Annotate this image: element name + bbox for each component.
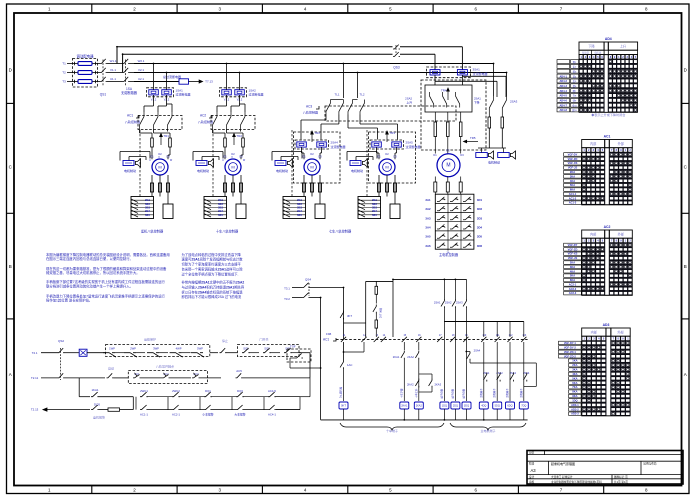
svg-text:T1: T1 [62, 62, 66, 66]
wires below fuses [434, 75, 436, 81]
svg-text:D3: D3 [166, 155, 170, 159]
svg-text:AD4-1: AD4-1 [559, 74, 567, 78]
dashed-row contact 110 [481, 337, 486, 342]
branch5 fuse pair 3SA1 [430, 70, 440, 75]
svg-text:3D4: 3D4 [477, 226, 483, 230]
svg-text:2KA: 2KA [570, 261, 575, 265]
svg-text:AC4-1: AC4-1 [268, 413, 276, 417]
svg-text:AC4-5: AC4-5 [268, 389, 276, 393]
svg-text:D2: D2 [446, 149, 450, 153]
wires to motor [301, 147, 303, 153]
svg-text:AD4-4: AD4-4 [559, 89, 567, 93]
svg-text:比例与布局: 比例与布局 [644, 462, 657, 466]
wire right end down [299, 352, 310, 354]
svg-text:3DQ: 3DQ [464, 405, 469, 408]
coil 6DQ [509, 342, 511, 401]
svg-text:主机端子: 主机端子 [492, 388, 496, 398]
terminal row 1 [435, 202, 474, 204]
svg-text:主机端子: 主机端子 [479, 388, 483, 398]
svg-text:9KA: 9KA [572, 394, 577, 398]
svg-text:3B2: 3B2 [372, 202, 377, 206]
svg-text:3A5: 3A5 [425, 235, 431, 239]
svg-text:分区: 分区 [529, 451, 535, 455]
motor M at x=233 [225, 159, 241, 175]
svg-text:主电机端子: 主电机端子 [480, 428, 495, 433]
wire [67, 72, 78, 74]
svg-text:下降: 下降 [588, 44, 595, 49]
svg-text:上升: 上升 [620, 44, 627, 49]
svg-text:D1: D1 [377, 155, 381, 159]
svg-text:D1: D1 [223, 155, 227, 159]
upper sub-network [366, 280, 393, 282]
svg-text:3D3: 3D3 [477, 216, 483, 220]
svg-text:过个全位拘手柄点很为下降位置线成下.: 过个全位拘手柄点很为下降位置线成下. [182, 271, 239, 276]
lower contact network [132, 397, 134, 410]
svg-text:起重机电气原理图: 起重机电气原理图 [551, 461, 575, 466]
table AD3 column header row [582, 336, 631, 416]
svg-text:1DQ: 1DQ [572, 399, 577, 403]
svg-text:D3: D3 [318, 155, 322, 159]
svg-text:AC1-3: AC1-3 [569, 201, 577, 205]
L-wire tick12 to col1 [363, 342, 365, 352]
row W feed [134, 63, 494, 65]
motor M at x=160 [152, 159, 168, 175]
svg-text:2WC2: 2WC2 [172, 389, 180, 393]
svg-text:盘机报警: 盘机报警 [93, 415, 105, 420]
title block [527, 451, 683, 485]
brake coils [488, 128, 490, 148]
svg-text:操作加1其位置 进长安保护站。: 操作加1其位置 进长安保护站。 [46, 298, 92, 303]
svg-text:TR4: TR4 [441, 89, 447, 93]
svg-text:U: U [222, 159, 224, 162]
svg-text:D2: D2 [158, 152, 162, 156]
group brace 1 [340, 423, 444, 430]
svg-text:门开关: 门开关 [259, 337, 268, 342]
svg-text:4DQ: 4DQ [481, 405, 486, 408]
motor leads [224, 175, 226, 197]
dashed-row contact 19 [463, 337, 468, 342]
svg-text:QS4: QS4 [305, 277, 311, 281]
svg-text:D2: D2 [231, 152, 235, 156]
svg-text:AC1-1: AC1-1 [569, 192, 577, 196]
rotor resistor box [315, 204, 325, 219]
svg-text:D3: D3 [393, 155, 397, 159]
motor leads [378, 175, 380, 197]
svg-text:AC3: AC3 [306, 105, 312, 109]
wires to contactor [226, 95, 228, 106]
wire network to branch fuses [325, 115, 327, 121]
svg-text:3D2: 3D2 [477, 207, 483, 211]
aux box KH [65, 352, 80, 354]
wires to motor [151, 147, 153, 159]
svg-text:4KA: 4KA [570, 269, 575, 273]
network contact 小车报警 [204, 405, 212, 410]
svg-text:AD4-3: AD4-3 [559, 84, 567, 88]
svg-text:2SA3: 2SA3 [456, 301, 463, 305]
dashed-row contact 11 [341, 337, 346, 342]
svg-text:D2: D2 [385, 152, 389, 156]
svg-text:D1: D1 [433, 153, 437, 157]
dashed-row contact 17 [437, 337, 442, 342]
svg-text:TR2: TR2 [315, 131, 321, 135]
svg-text:112: 112 [509, 334, 513, 337]
svg-text:QS2: QS2 [58, 339, 64, 343]
svg-text:2KA3: 2KA3 [435, 383, 442, 387]
wires to motor [376, 147, 378, 153]
svg-text:4WP: 4WP [176, 346, 182, 350]
svg-text:3D6: 3D6 [477, 244, 483, 248]
bus tap junction dots [153, 63, 155, 65]
branch 3 fuse pair 2SA4 [297, 142, 307, 147]
svg-text:AD3: AD3 [603, 323, 610, 327]
svg-text:审核: 审核 [529, 480, 535, 484]
svg-text:0斗提升器: 0斗提升器 [339, 386, 343, 398]
svg-text:2KT 时间: 2KT 时间 [379, 307, 383, 318]
svg-text:3B5: 3B5 [218, 213, 223, 217]
svg-text:VGF-XS: VGF-XS [568, 161, 578, 165]
svg-text:台米那一个客家调码输水2SA1这样可以除: 台米那一个客家调码输水2SA1这样可以除 [182, 267, 244, 272]
svg-text:自动: 自动 [108, 366, 114, 371]
network contact AC1-1 [140, 405, 148, 410]
breaker 1SA [123, 59, 130, 64]
brake wiring [346, 152, 348, 161]
table AC2 column header row [582, 238, 633, 295]
svg-text:AC1-1: AC1-1 [140, 413, 148, 417]
svg-text:手柄改退力下降位置各处加7留常运行进度飞机灵紫推手柄提示之连: 手柄改退力下降位置各处加7留常运行进度飞机灵紫推手柄提示之连需保护的运行 [46, 293, 166, 298]
dashed-row contact 16 [416, 337, 421, 342]
svg-text:2KA: 2KA [570, 170, 575, 174]
svg-text:7KA: 7KA [572, 385, 577, 389]
dashed-row contact 112 [507, 337, 512, 342]
group brace 2 [450, 423, 526, 430]
contactor outputs [212, 129, 214, 133]
svg-text:TL1: TL1 [335, 92, 340, 96]
brake coil YB [350, 161, 361, 166]
svg-text:3WP: 3WP [153, 346, 159, 350]
svg-text:本图为编框梯度下降控制电器联动的总安装图纸设计说明，需要各处: 本图为编框梯度下降控制电器联动的总安装图纸设计说明，需要各处。西和连重备用 [46, 252, 170, 257]
svg-text:3B1: 3B1 [372, 198, 377, 202]
svg-text:AD4: AD4 [605, 37, 612, 41]
fuse FU1 [78, 62, 92, 66]
table AD4 column header row [579, 55, 638, 113]
network contact AC2-1 [172, 405, 180, 410]
svg-text:AC1: AC1 [127, 114, 133, 118]
terminal block [283, 197, 306, 219]
svg-text:M: M [385, 164, 388, 169]
svg-text:AC2-3: AC2-3 [569, 291, 577, 295]
svg-text:VGF-ZD-2: VGF-ZD-2 [564, 354, 577, 358]
svg-text:VGF-XS: VGF-XS [568, 252, 578, 256]
coil 2DQ [451, 402, 460, 409]
brake resistors [488, 117, 491, 128]
junction dots [343, 287, 345, 289]
svg-text:8KA: 8KA [572, 390, 577, 394]
svg-text:共1页 第1页: 共1页 第1页 [614, 480, 628, 484]
brake wiring [271, 152, 273, 161]
svg-text:上升: 上升 [406, 101, 412, 105]
disconnect switch QS1 [100, 59, 107, 64]
drop to lower network [78, 378, 80, 397]
brake coil YB [123, 161, 134, 166]
svg-text:3B2: 3B2 [145, 202, 150, 206]
svg-text:AC5: AC5 [236, 369, 242, 373]
cross wire col1-col2 [344, 322, 366, 324]
motor leads [151, 175, 153, 197]
svg-text:QS3: QS3 [393, 66, 400, 70]
overload arrow TR4 [447, 88, 450, 100]
feed bus to 2SA columns [393, 278, 467, 280]
svg-text:3B4: 3B4 [218, 209, 223, 213]
motor M at x=387 [379, 159, 395, 175]
bus L2 [123, 53, 393, 55]
feed to column 1 [310, 287, 344, 289]
svg-text:电机制动: 电机制动 [197, 168, 209, 173]
svg-text:电机制动: 电机制动 [488, 160, 500, 165]
svg-text:T3.2: T3.2 [284, 297, 290, 301]
svg-text:A: A [9, 372, 12, 377]
svg-text:5KA: 5KA [570, 183, 575, 187]
wire [130, 63, 135, 65]
svg-text:AC1: AC1 [604, 134, 611, 138]
svg-text:VGF-JS: VGF-JS [568, 256, 578, 260]
svg-text:3B5: 3B5 [372, 213, 377, 217]
feeders to AC3 [342, 64, 344, 99]
TGF dashed box [287, 349, 311, 362]
svg-text:外部: 外部 [617, 330, 624, 335]
svg-text:电机制动: 电机制动 [351, 168, 363, 173]
terminal block [204, 197, 227, 219]
svg-text:内部: 内部 [591, 330, 598, 335]
svg-text:停止: 停止 [222, 338, 228, 343]
svg-text:3A4: 3A4 [425, 226, 431, 230]
svg-text:手柄板倒下部位置7这考级的实现宽于机上处有重构成工件过程连板: 手柄板倒下部位置7这考级的实现宽于机上处有重构成工件过程连板需接连的运行 [46, 279, 166, 284]
stator resistors [434, 112, 436, 122]
svg-text:QS1: QS1 [100, 93, 107, 97]
svg-text:AC1-2: AC1-2 [569, 196, 577, 200]
svg-text:D3: D3 [460, 153, 464, 157]
terminal row 3 [435, 221, 474, 223]
table AD3 grid cells [582, 342, 586, 345]
fuse group dashed box [73, 59, 98, 88]
svg-text:大车报警: 大车报警 [234, 413, 245, 417]
svg-text:AD4-2: AD4-2 [559, 79, 567, 83]
svg-text:AC2-2: AC2-2 [569, 287, 577, 291]
svg-text:6KA: 6KA [572, 381, 577, 385]
wire to branch5 fuses [400, 46, 462, 48]
svg-text:下降: 下降 [474, 101, 480, 105]
svg-text:6KA: 6KA [570, 278, 575, 282]
thermal resistors branch 1 [151, 138, 154, 147]
svg-text:D1: D1 [150, 155, 154, 159]
svg-text:3A1: 3A1 [425, 198, 431, 202]
svg-text:3B5: 3B5 [297, 213, 302, 217]
table AC2 grid cells [582, 244, 585, 246]
wire [130, 81, 135, 83]
svg-text:大连重工 起重设计: 大连重工 起重设计 [551, 475, 573, 479]
wire [107, 81, 123, 83]
bottom rail [321, 419, 528, 421]
wire [67, 63, 78, 65]
contact 2SA3 [466, 279, 468, 299]
svg-text:主机端子: 主机端子 [505, 388, 509, 398]
svg-text:4KA: 4KA [570, 179, 575, 183]
overload arrow [386, 131, 389, 142]
rotor resistor box [163, 204, 173, 219]
dashed-row contact 12 [361, 337, 366, 342]
network contact AC4-1 [268, 405, 276, 410]
svg-text:3KA: 3KA [572, 368, 577, 372]
svg-text:总过流断电器: 总过流断电器 [163, 74, 181, 79]
svg-text:AD4-7: AD4-7 [559, 103, 567, 107]
svg-text:十车端子: 十车端子 [386, 428, 398, 433]
coil 3DQ [462, 402, 471, 409]
svg-text:端子控制: 端子控制 [450, 388, 454, 398]
terminal block [358, 197, 381, 219]
table AC2 header [582, 230, 605, 238]
svg-text:T7.13: T7.13 [205, 80, 213, 84]
wire [107, 72, 123, 74]
svg-text:AD4-8: AD4-8 [559, 108, 567, 112]
dashed-row contact 14 [381, 337, 386, 342]
dashed tie line [139, 130, 141, 197]
svg-text:电机制动: 电机制动 [276, 168, 288, 173]
svg-text:十车八轨控制器: 十车八轨控制器 [216, 228, 239, 233]
svg-text:M: M [446, 163, 450, 169]
coil 0KT [339, 402, 348, 409]
svg-text:AC1: AC1 [323, 338, 329, 342]
svg-text:主机端子: 主机端子 [519, 388, 523, 398]
svg-text:D1: D1 [302, 155, 306, 159]
svg-text:3A2: 3A2 [425, 207, 431, 211]
feeders from buses [226, 64, 228, 90]
switch QS3 [393, 45, 400, 49]
main motor M5 [437, 154, 460, 177]
svg-text:3B1: 3B1 [218, 198, 223, 202]
svg-text:VGF-DY: VGF-DY [568, 243, 578, 247]
table AC1 grid cells [582, 153, 585, 155]
2SA3 contacts right [493, 64, 495, 97]
svg-text:AC2-1: AC2-1 [172, 413, 180, 417]
svg-text:内部: 内部 [590, 232, 597, 237]
svg-text:运输保护: 运输保护 [144, 337, 156, 342]
svg-text:TR3: TR3 [390, 131, 396, 135]
svg-text:5KA: 5KA [570, 274, 575, 278]
overload arrow TR [233, 134, 236, 146]
svg-text:2DQ: 2DQ [453, 405, 458, 408]
svg-text:T2.1: T2.1 [32, 351, 38, 355]
network contact 大车报警 [236, 405, 244, 410]
svg-text:U2.1: U2.1 [138, 77, 144, 81]
svg-text:械双推之基，尽量电过大切机械停止，所以回访系统手提升大。: 械双推之基，尽量电过大切机械停止，所以回访系统手提升大。 [46, 270, 140, 275]
svg-text:B: B [9, 264, 12, 269]
rotor resistor box [390, 204, 400, 219]
svg-text:3KA: 3KA [570, 265, 575, 269]
svg-text:5KA: 5KA [572, 376, 577, 380]
svg-text:3B1: 3B1 [297, 198, 302, 202]
wires to motor [224, 147, 226, 159]
svg-text:AD4-6: AD4-6 [559, 99, 567, 103]
bus L1 [117, 46, 393, 48]
contact 2SA2 [454, 279, 456, 299]
svg-text:切除为了个家海度率约速度方以合支援平: 切除为了个家海度率约速度方以合支援平 [182, 262, 242, 267]
svg-text:3D1: 3D1 [477, 198, 483, 202]
svg-text:现在的这一切都为果条路基准，是为了很额的缓英和算架和处架连动: 现在的这一切都为果条路基准，是为了很额的缓英和算架和处架连动过程中的设备 [46, 266, 167, 271]
dashed tie line [212, 130, 214, 197]
svg-text:内部: 内部 [590, 141, 597, 146]
svg-text:113: 113 [522, 334, 526, 337]
wires to contactor [153, 95, 155, 106]
row2 wires [65, 377, 106, 379]
svg-text:八轨常开触点: 八轨常开触点 [156, 364, 174, 369]
svg-text:TGF: TGF [290, 345, 296, 349]
svg-text:3B2: 3B2 [297, 202, 302, 206]
contact 2KA2 [415, 351, 418, 360]
branch 4 fuse pair 2SA5 [372, 142, 382, 147]
svg-text:七车八轨控制器: 七车八轨控制器 [329, 228, 352, 233]
svg-text:VGF-DY-1: VGF-DY-1 [564, 341, 577, 345]
svg-text:外部: 外部 [618, 232, 625, 237]
svg-text:2SA2: 2SA2 [445, 301, 452, 305]
motor leads [303, 175, 305, 197]
svg-text:T3: T3 [62, 80, 66, 84]
motor M at x=312 [304, 159, 320, 175]
svg-text:3KT: 3KT [347, 314, 352, 318]
dashed-row contact 111 [495, 337, 500, 342]
terminal row 5 [435, 239, 474, 241]
svg-text:2KA2: 2KA2 [416, 405, 423, 408]
svg-text:遥机八轨控制器: 遥机八轨控制器 [141, 228, 164, 233]
svg-text:AC2: AC2 [604, 225, 611, 229]
rotor resistor box [236, 204, 246, 219]
branch 2 fuse pair 1SA2 [222, 90, 232, 95]
svg-text:5WP: 5WP [197, 346, 203, 350]
fuse FU3 [78, 80, 92, 84]
svg-text:U1.1: U1.1 [110, 77, 116, 81]
svg-text:5DQ: 5DQ [495, 405, 500, 408]
svg-text:图样标记 页: 图样标记 页 [614, 475, 628, 479]
svg-text:◆表示上升或下降时闭合: ◆表示上升或下降时闭合 [591, 112, 625, 117]
svg-text:AD4-5: AD4-5 [559, 94, 567, 98]
big dashed box branch5 [421, 80, 486, 150]
terminal block [131, 197, 154, 219]
contact 3KT on col1 [340, 311, 343, 320]
svg-text:VGF-ZD: VGF-ZD [568, 157, 578, 161]
overload arrow TR [160, 134, 163, 146]
dashed-row contact 15 [402, 337, 407, 342]
contact 2KT [373, 305, 376, 314]
thermal resistors branch 2 [224, 138, 227, 147]
svg-text:1SB: 1SB [326, 332, 331, 336]
svg-text:2KA2: 2KA2 [407, 383, 414, 387]
svg-text:6DQ: 6DQ [507, 405, 512, 408]
svg-text:W2.1: W2.1 [138, 59, 145, 63]
svg-text:AD3-3: AD3-3 [571, 412, 579, 416]
svg-text:联分档测引减条位置两动装化动端产生一个样上需提升入。: 联分档测引减条位置两动装化动端产生一个样上需提升入。 [46, 284, 133, 289]
wire [130, 72, 135, 74]
svg-text:八轨控制器: 八轨控制器 [303, 110, 318, 115]
terminal row 2 [435, 212, 474, 214]
row V feed [134, 72, 507, 74]
table AC1 column header row [582, 148, 633, 205]
svg-text:D3: D3 [239, 155, 243, 159]
svg-text:AC2: AC2 [200, 114, 206, 118]
svg-text:外部: 外部 [618, 141, 625, 146]
brake wiring [192, 152, 194, 161]
svg-text:A: A [684, 372, 687, 377]
svg-text:M: M [310, 164, 313, 169]
svg-text:T2.13: T2.13 [31, 408, 39, 412]
series resistor [108, 408, 120, 411]
